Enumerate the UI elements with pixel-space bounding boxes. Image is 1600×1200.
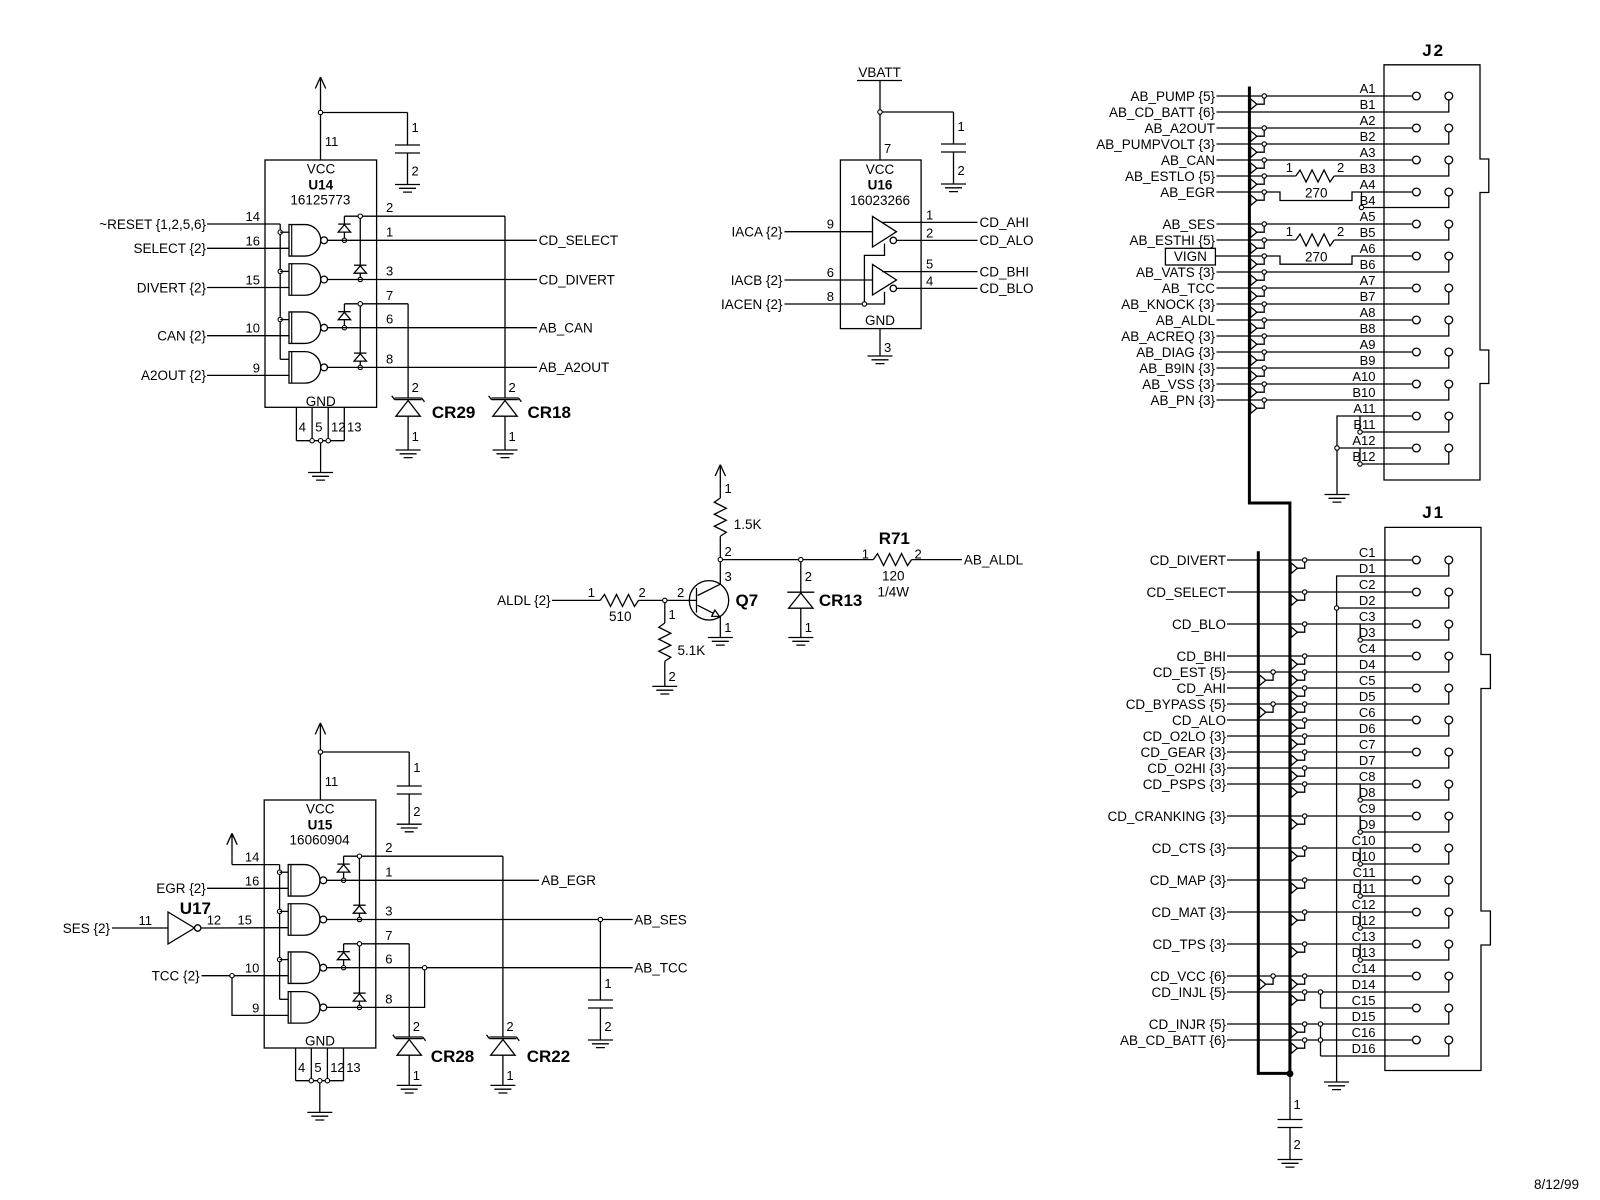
- wire 270 to J2 pin B5: [1334, 228, 1449, 240]
- ground below CR29: [396, 450, 421, 458]
- wire collector node to CR13 and R71: [723, 559, 874, 561]
- connector J2 pin B11: [1445, 412, 1453, 420]
- diode CR29 (zener): [392, 304, 476, 450]
- connector J2 pin A1: [1413, 92, 1421, 100]
- ground below CR18: [493, 450, 518, 458]
- svg-text:12: 12: [330, 1060, 344, 1075]
- svg-text:CD_INJL {5}: CD_INJL {5}: [1151, 985, 1226, 1000]
- svg-text:15: 15: [238, 913, 252, 928]
- svg-text:C7: C7: [1359, 737, 1376, 752]
- wire CD_EST to J1 pin: [1153, 660, 1449, 680]
- wire U14 gate4 top input: [280, 358, 289, 360]
- wire IACB input pin 6: [731, 265, 873, 288]
- wire CD_MAP to J1 pin: [1150, 873, 1413, 888]
- node U15 gate1 output junction: [341, 878, 345, 882]
- wire U15 pin 11 VCC: [320, 754, 338, 800]
- capacitor C-bus pin 2: [1290, 1128, 1301, 1160]
- svg-text:11: 11: [325, 774, 339, 789]
- node Q7 collector junction: [718, 557, 722, 561]
- svg-text:1: 1: [385, 864, 392, 879]
- svg-text:VBATT: VBATT: [858, 65, 901, 80]
- ground below U15: [307, 1112, 332, 1120]
- svg-text:C14: C14: [1352, 961, 1376, 976]
- node J1 row 1 labels: [1359, 545, 1376, 576]
- connector J1 pin D13: [1445, 940, 1453, 948]
- connector J1 pin C9: [1413, 812, 1421, 820]
- node J1 row 8 labels: [1359, 769, 1376, 800]
- svg-text:SELECT {2}: SELECT {2}: [133, 241, 206, 256]
- node J2 row 5 labels: [1360, 209, 1376, 240]
- capacitor C-bus: [1278, 1120, 1303, 1128]
- ground below C-U16: [941, 184, 966, 192]
- svg-text:2: 2: [386, 200, 393, 215]
- wire J1 pin D11 tie: [1360, 880, 1449, 896]
- svg-text:AB_TCC: AB_TCC: [634, 961, 688, 976]
- node ~RESET input wire pin 14: [99, 209, 280, 232]
- ground below C-SES: [588, 1040, 613, 1048]
- svg-text:270: 270: [1305, 186, 1328, 201]
- power VCC arrow (U15 pin 14): [227, 833, 237, 864]
- svg-text:2: 2: [413, 804, 420, 819]
- svg-text:AB_ESTLO {5}: AB_ESTLO {5}: [1125, 169, 1216, 184]
- svg-text:16: 16: [245, 873, 259, 888]
- wire CD_CTS to J1 pin: [1152, 841, 1413, 856]
- transistor Q7 (NPN): [689, 581, 758, 620]
- capacitor C-U14 pin 2: [408, 153, 419, 185]
- connector J1 pin C5: [1413, 684, 1421, 692]
- node U14 gate1 top input junction: [278, 230, 289, 234]
- op-amp U15 gate 4 (NAND): [288, 992, 327, 1024]
- node CR13 junction: [799, 557, 803, 561]
- connector J2 pin A9: [1413, 348, 1421, 356]
- svg-text:D6: D6: [1359, 721, 1376, 736]
- op-amp U14 gate 2 (NAND): [289, 264, 328, 296]
- svg-text:9: 9: [253, 360, 260, 375]
- svg-text:14: 14: [246, 209, 260, 224]
- connector J1 pin C14: [1413, 972, 1421, 980]
- svg-text:B1: B1: [1360, 97, 1376, 112]
- op-amp U14 gate 3 (NAND): [289, 312, 328, 344]
- svg-text:6: 6: [386, 312, 393, 327]
- resistor R-1.5K: [714, 498, 761, 536]
- node U15 ground rail junctions: [309, 1079, 330, 1083]
- connector J1 pin D2: [1445, 588, 1453, 596]
- diode U14 gate1 clamp: [338, 216, 350, 240]
- svg-text:B8: B8: [1360, 321, 1376, 336]
- node AB_SES capacitor junction: [598, 917, 602, 921]
- svg-text:D2: D2: [1359, 593, 1376, 608]
- connector J1 pin D1: [1445, 556, 1453, 564]
- svg-text:AB_CAN: AB_CAN: [1161, 153, 1215, 168]
- wire TCC input pin 10: [152, 961, 289, 984]
- svg-text:C11: C11: [1353, 865, 1376, 880]
- wire U14 input bus vertical: [279, 224, 281, 359]
- node VCC junction at U14 pin 11: [318, 110, 322, 114]
- wire DIVERT input pin 15: [137, 273, 289, 296]
- capacitor C-U14: [395, 145, 420, 153]
- connector J2 pin B12: [1445, 444, 1453, 452]
- node bus entries CD_EST: [1260, 670, 1307, 686]
- svg-text:GND: GND: [865, 313, 895, 328]
- svg-text:U15: U15: [308, 818, 333, 833]
- svg-text:CD_O2LO {3}: CD_O2LO {3}: [1143, 729, 1227, 744]
- node bus entry AB_DIAG: [1251, 350, 1267, 366]
- node J1 D12 junction: [1358, 926, 1362, 930]
- node bus entry CD_INJR: [1291, 1022, 1307, 1038]
- diode CR22 (zener): [487, 856, 571, 1085]
- wire bus J2 (thick): [1249, 87, 1290, 1074]
- connector J1 pin D3: [1445, 620, 1453, 628]
- connector J1 pin D16: [1445, 1036, 1453, 1044]
- wire CD_BHI output pin 5: [882, 257, 1029, 280]
- svg-text:13: 13: [346, 1060, 360, 1075]
- wire EGR input pin 16: [156, 873, 288, 896]
- capacitor C-U16 pin 2: [954, 152, 965, 184]
- svg-text:3: 3: [884, 340, 891, 355]
- svg-text:B2: B2: [1360, 129, 1376, 144]
- svg-text:A1: A1: [1360, 81, 1376, 96]
- resistor R-510: [600, 585, 645, 624]
- svg-text:R71: R71: [879, 529, 910, 548]
- node U15 gate3 top input junction: [277, 957, 288, 961]
- wire SES input: [63, 913, 168, 936]
- node CD_INJL branch junction: [1318, 990, 1322, 994]
- svg-text:CD_ALO: CD_ALO: [1172, 713, 1226, 728]
- diode U14 gate3 clamp: [338, 304, 350, 328]
- wire U15 GND pins 4 5 12 13: [296, 1048, 361, 1081]
- svg-text:~RESET {1,2,5,6}: ~RESET {1,2,5,6}: [99, 217, 206, 232]
- connector J2 label: [1422, 41, 1445, 60]
- node bus entry AB_ESTHI: [1251, 238, 1267, 254]
- svg-text:D14: D14: [1352, 977, 1376, 992]
- svg-text:CD_AHI: CD_AHI: [980, 215, 1030, 230]
- svg-text:1/4W: 1/4W: [878, 585, 910, 600]
- svg-text:AB_VSS {3}: AB_VSS {3}: [1142, 377, 1215, 392]
- wire J2 ground pins A11 A12 B11 B12: [1337, 416, 1449, 495]
- svg-text:CD_ALO: CD_ALO: [980, 233, 1034, 248]
- node VBATT junction: [878, 110, 882, 114]
- svg-text:CD_CTS {3}: CD_CTS {3}: [1152, 841, 1227, 856]
- wire VCC junction to bypass capacitor: [323, 751, 410, 753]
- svg-text:CD_DIVERT: CD_DIVERT: [1150, 553, 1226, 568]
- capacitor C-bus pin 1: [1290, 1074, 1301, 1120]
- wire AB_ESTHI to 270 resistor: [1129, 233, 1295, 248]
- svg-text:CD_BYPASS {5}: CD_BYPASS {5}: [1126, 697, 1227, 712]
- svg-text:C10: C10: [1352, 833, 1376, 848]
- svg-text:C4: C4: [1359, 641, 1376, 656]
- svg-text:AB_PUMP {5}: AB_PUMP {5}: [1130, 89, 1215, 104]
- op-amp U15 body box: [264, 800, 376, 1049]
- wire AB_B9IN to J2 pin: [1139, 356, 1449, 376]
- connector J1 pin C12: [1413, 908, 1421, 916]
- node J1 row 15 labels: [1352, 993, 1376, 1024]
- svg-text:7: 7: [884, 141, 891, 156]
- connector J1 pin C2: [1413, 588, 1421, 596]
- connector J1 pin D4: [1445, 652, 1453, 660]
- wire CD_O2LO to J1 pin: [1143, 724, 1449, 744]
- svg-text:TCC {2}: TCC {2}: [152, 969, 201, 984]
- node J1 row 6 labels: [1359, 705, 1376, 736]
- node U14 gate4 output junction: [358, 365, 362, 369]
- diode U14 gate2 clamp: [354, 218, 366, 279]
- wire U14 pin 7 protection net: [344, 288, 408, 304]
- svg-text:U14: U14: [308, 178, 333, 193]
- svg-text:CR28: CR28: [431, 1047, 474, 1066]
- node bus entry AB_VSS: [1251, 382, 1267, 398]
- svg-text:5: 5: [314, 1060, 321, 1075]
- svg-text:AB_KNOCK {3}: AB_KNOCK {3}: [1121, 297, 1215, 312]
- node TCC junction: [230, 974, 234, 978]
- svg-text:3: 3: [386, 264, 393, 279]
- svg-text:16: 16: [246, 233, 260, 248]
- svg-text:D10: D10: [1352, 849, 1376, 864]
- connector J1 pin D15: [1445, 1004, 1453, 1012]
- connector J2 pin B9: [1445, 348, 1453, 356]
- capacitor C-SES pin 1: [600, 922, 611, 1000]
- power VCC arrow (Q7 pull-up): [715, 465, 732, 498]
- svg-text:7: 7: [386, 288, 393, 303]
- svg-text:CR29: CR29: [432, 403, 475, 422]
- node J1 row 2 labels: [1359, 577, 1376, 608]
- svg-text:C8: C8: [1359, 769, 1376, 784]
- svg-text:5: 5: [926, 257, 933, 272]
- node bus junction blob: [1287, 1070, 1294, 1077]
- node bus entry AB_CAN: [1251, 158, 1267, 174]
- connector J2 pin A8: [1413, 316, 1421, 324]
- connector J2 pin B8: [1445, 316, 1453, 324]
- wire VIGN to J2 pin A6: [1215, 256, 1412, 264]
- node J2 row 9 labels: [1360, 337, 1376, 368]
- node bus entry AB_ALDL: [1251, 318, 1267, 334]
- connector J2 pin A12: [1413, 444, 1421, 452]
- node J1 D9 junction: [1358, 830, 1362, 834]
- svg-text:1: 1: [506, 1068, 513, 1083]
- wire AB_VATS to J2 pin: [1136, 260, 1449, 280]
- node bus entry AB_CD_BATT: [1291, 1038, 1307, 1054]
- svg-text:1: 1: [1294, 1097, 1301, 1112]
- svg-text:A4: A4: [1360, 177, 1376, 192]
- diode U15 gate3 clamp: [337, 944, 349, 968]
- node bus entry AB_VATS: [1251, 270, 1267, 286]
- svg-text:AB_B9IN {3}: AB_B9IN {3}: [1139, 361, 1215, 376]
- wire AB_ESTLO to 270 resistor: [1125, 169, 1296, 184]
- svg-text:14: 14: [245, 850, 259, 865]
- svg-text:1: 1: [413, 1068, 420, 1083]
- svg-text:8: 8: [827, 289, 834, 304]
- ground below 5.1K: [652, 686, 677, 694]
- node bus entry AB_PUMPVOLT: [1251, 142, 1267, 158]
- svg-text:AB_ACREQ {3}: AB_ACREQ {3}: [1121, 329, 1215, 344]
- wire U16 enable chain: [864, 244, 884, 307]
- wire collector node down to Q7: [720, 562, 731, 584]
- wire CD_BHI to J1 pin: [1176, 649, 1412, 664]
- node J2 B12 junction: [1358, 462, 1362, 466]
- wire CD_O2HI to J1 pin: [1147, 756, 1449, 776]
- svg-text:Q7: Q7: [736, 591, 759, 610]
- svg-text:VCC: VCC: [866, 162, 895, 177]
- connector J1 pin C1: [1413, 556, 1421, 564]
- node U14 gate2 output junction: [358, 277, 362, 281]
- svg-text:2: 2: [926, 225, 933, 240]
- connector J1 pin D8: [1445, 780, 1453, 788]
- node U14 gate3 output junction: [342, 326, 346, 330]
- wire bus J1 left (thick): [1258, 551, 1290, 1073]
- svg-text:B7: B7: [1360, 289, 1376, 304]
- node IACEN junction: [862, 302, 866, 306]
- node J2 row 1 labels: [1360, 81, 1376, 112]
- wire J1 pin D13 tie: [1360, 944, 1449, 960]
- wire CD_ALO to J1 pin: [1172, 713, 1413, 728]
- diode U15 gate4 clamp: [353, 946, 365, 1007]
- node U14 gate3 top input junction: [278, 317, 289, 321]
- svg-text:A7: A7: [1360, 273, 1376, 288]
- node J1 row 16 labels: [1352, 1025, 1376, 1056]
- node J1 row 11 labels: [1353, 865, 1376, 896]
- svg-text:6: 6: [385, 952, 392, 967]
- wire VBATT junction to capacitor: [882, 111, 953, 113]
- node bus entry AB_TCC: [1251, 286, 1267, 302]
- node J1 D3 junction: [1358, 638, 1362, 642]
- svg-text:2: 2: [805, 569, 812, 584]
- wire CD_MAT to J1 pin: [1151, 905, 1412, 920]
- node bus entry CD_CRANKING: [1291, 814, 1307, 830]
- svg-text:2: 2: [385, 840, 392, 855]
- wire 270 to J2 pin B3: [1334, 164, 1449, 176]
- wire CD_CRANKING to J1 pin: [1107, 809, 1412, 824]
- svg-text:2: 2: [1337, 224, 1344, 239]
- wire AB_ACREQ to J2 pin: [1121, 324, 1449, 344]
- wire AB_A2OUT output pin 8: [328, 351, 610, 375]
- svg-text:1: 1: [509, 429, 516, 444]
- svg-text:EGR {2}: EGR {2}: [156, 881, 206, 896]
- svg-text:ALDL {2}: ALDL {2}: [497, 593, 551, 608]
- node bus entry CD_MAT: [1291, 910, 1307, 926]
- wire AB_EGR to J2 pins A4 B4: [1160, 185, 1449, 208]
- node bus entry AB_EGR: [1251, 190, 1267, 206]
- connector J1 pin D7: [1445, 748, 1453, 756]
- connector J1 pin C4: [1413, 652, 1421, 660]
- svg-text:CD_VCC {6}: CD_VCC {6}: [1150, 969, 1226, 984]
- node J2 row 4 labels: [1360, 177, 1376, 208]
- svg-text:1: 1: [724, 620, 731, 635]
- wire 1.5K to collector node: [720, 536, 731, 559]
- node J2 row 3 labels: [1360, 145, 1376, 176]
- connector J2 pin B6: [1445, 252, 1453, 260]
- diode CR18 (zener): [489, 216, 571, 450]
- wire VBATT to U16: [879, 81, 881, 113]
- node J1 row 13 labels: [1352, 929, 1376, 960]
- node bus entries CD_BYPASS: [1260, 702, 1307, 718]
- svg-text:2: 2: [725, 544, 732, 559]
- wire U15 pin 8 output to pin 6 net: [327, 970, 425, 1008]
- connector J2 pin B1: [1445, 92, 1453, 100]
- wire CD_ALO output pin 2: [897, 225, 1034, 248]
- svg-text:5.1K: 5.1K: [678, 643, 706, 658]
- ground below C-U15: [397, 824, 422, 832]
- svg-text:D12: D12: [1352, 913, 1376, 928]
- svg-text:A10: A10: [1352, 369, 1375, 384]
- connector J2 pin B7: [1445, 284, 1453, 292]
- node U14 ground rail junctions: [310, 439, 331, 443]
- svg-text:A8: A8: [1360, 305, 1376, 320]
- svg-text:7: 7: [385, 928, 392, 943]
- svg-text:11: 11: [139, 913, 153, 928]
- wire AB_DIAG to J2 pin: [1136, 345, 1412, 360]
- op-amp U15 gate 1 (NAND): [288, 865, 327, 897]
- wire ALDL input: [497, 585, 600, 608]
- wire U15 input bus vertical: [279, 865, 281, 1000]
- wire CD_TPS to J1 pin: [1152, 937, 1412, 952]
- svg-text:1: 1: [604, 976, 611, 991]
- svg-text:B12: B12: [1352, 449, 1375, 464]
- svg-text:CR13: CR13: [819, 591, 862, 610]
- connector J1 pin D9: [1445, 812, 1453, 820]
- wire CD_INJR to J1 pins D15 C16: [1149, 1012, 1449, 1040]
- svg-text:B10: B10: [1352, 385, 1375, 400]
- wire AB_SES output pin 3: [327, 904, 687, 928]
- wire CD_GEAR to J1 pin: [1140, 745, 1412, 760]
- node bus entry CD_PSPS: [1291, 782, 1307, 798]
- svg-text:6: 6: [827, 265, 834, 280]
- wire U16 pin 7: [880, 114, 891, 160]
- svg-text:CD_EST {5}: CD_EST {5}: [1153, 665, 1227, 680]
- svg-text:1: 1: [1286, 160, 1293, 175]
- node net-2 junction for gate2 diode: [358, 214, 362, 218]
- capacitor C-U14 pin 1: [408, 113, 419, 146]
- svg-text:AB_CD_BATT {6}: AB_CD_BATT {6}: [1120, 1033, 1227, 1048]
- svg-text:D15: D15: [1352, 1009, 1376, 1024]
- svg-text:AB_PUMPVOLT {3}: AB_PUMPVOLT {3}: [1096, 137, 1215, 152]
- svg-text:A12: A12: [1352, 433, 1375, 448]
- node bus entry AB_SES: [1251, 222, 1267, 238]
- connector J1 pin C16: [1413, 1036, 1421, 1044]
- power VCC arrow (U15 supply): [315, 723, 325, 752]
- svg-text:2: 2: [412, 380, 419, 395]
- svg-text:510: 510: [609, 609, 632, 624]
- node J1 row 12 labels: [1352, 897, 1376, 928]
- svg-text:2: 2: [413, 1019, 420, 1034]
- svg-text:5: 5: [315, 420, 322, 435]
- resistor R-5.1K: [659, 603, 705, 687]
- connector J1 pin C8: [1413, 780, 1421, 788]
- connector J2 pin B3: [1445, 156, 1453, 164]
- svg-text:8: 8: [386, 351, 393, 366]
- svg-text:CD_GEAR {3}: CD_GEAR {3}: [1140, 745, 1226, 760]
- wire J1 pin D8 tie: [1360, 784, 1449, 800]
- svg-text:C15: C15: [1352, 993, 1376, 1008]
- svg-text:2: 2: [677, 585, 684, 600]
- op-amp U16 driver B triangle: [873, 264, 897, 295]
- connector J2 outline: [1384, 65, 1489, 480]
- diode CR13: [787, 562, 862, 638]
- svg-text:C6: C6: [1359, 705, 1376, 720]
- svg-text:C16: C16: [1352, 1025, 1376, 1040]
- node bus entry AB_KNOCK: [1251, 302, 1267, 318]
- wire A2OUT input pin 9: [141, 360, 289, 383]
- svg-text:IACEN {2}: IACEN {2}: [721, 297, 783, 312]
- svg-text:13: 13: [347, 420, 361, 435]
- wire AB_CAN output pin 6: [328, 312, 593, 336]
- wire U14 GND pins 4 5 12 13: [296, 407, 361, 440]
- svg-text:J2: J2: [1422, 41, 1445, 60]
- node bus entries CD_VCC: [1260, 974, 1307, 990]
- svg-text:CD_SELECT: CD_SELECT: [1146, 585, 1226, 600]
- svg-text:12: 12: [207, 913, 221, 928]
- node bus entry CD_ALO: [1291, 718, 1307, 734]
- node J1 D10 junction: [1358, 862, 1362, 866]
- ground below U14: [308, 473, 333, 481]
- svg-text:AB_SES: AB_SES: [634, 912, 687, 927]
